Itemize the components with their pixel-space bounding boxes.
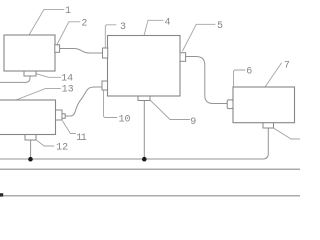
svg-text:2: 2 [81, 19, 87, 30]
svg-text:14: 14 [61, 73, 73, 84]
svg-text:10: 10 [118, 115, 130, 126]
svg-text:13: 13 [62, 85, 74, 96]
svg-text:12: 12 [56, 142, 68, 153]
svg-text:11: 11 [76, 133, 87, 144]
svg-text:6: 6 [246, 67, 252, 78]
svg-text:1: 1 [65, 6, 71, 17]
svg-text:7: 7 [284, 60, 290, 71]
svg-text:5: 5 [217, 21, 223, 32]
svg-text:9: 9 [190, 117, 196, 128]
svg-text:3: 3 [120, 22, 126, 33]
svg-text:4: 4 [164, 17, 170, 28]
